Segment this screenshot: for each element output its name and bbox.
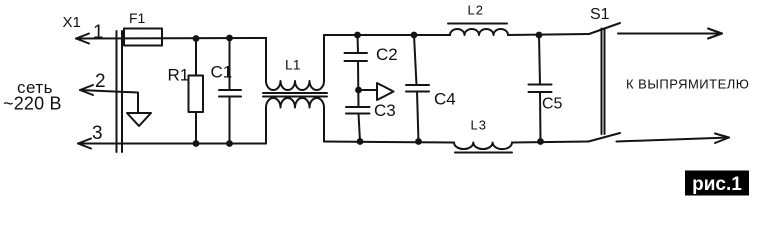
svg-text:C1: C1 [211, 63, 233, 82]
svg-text:рис.1: рис.1 [692, 174, 742, 195]
svg-text:C5: C5 [542, 96, 563, 113]
svg-text:X1: X1 [63, 14, 81, 31]
svg-text:F1: F1 [129, 10, 146, 26]
svg-text:L2: L2 [468, 3, 484, 18]
svg-text:L1: L1 [285, 57, 301, 73]
svg-text:C4: C4 [434, 90, 456, 109]
svg-text:C3: C3 [374, 101, 396, 120]
svg-text:2: 2 [95, 71, 106, 92]
svg-text:S1: S1 [590, 6, 610, 23]
svg-text:L3: L3 [471, 118, 487, 133]
svg-text:C2: C2 [376, 45, 398, 64]
svg-text:~220 В: ~220 В [3, 94, 62, 114]
svg-text:К ВЫПРЯМИТЕЛЮ: К ВЫПРЯМИТЕЛЮ [626, 77, 749, 92]
svg-text:1: 1 [93, 22, 104, 43]
svg-text:3: 3 [92, 123, 103, 144]
svg-text:R1: R1 [168, 66, 190, 85]
